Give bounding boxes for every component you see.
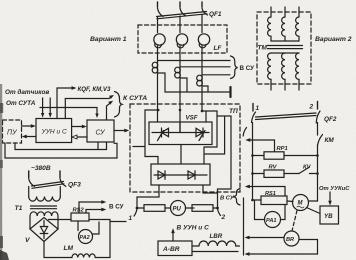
wire От СУТА to СУ (40, 108, 99, 119)
phase C wire upper (201, 15, 203, 33)
tick node 2 (218, 209, 226, 221)
TM primary connector (271, 40, 299, 42)
diode bridge internal wire (154, 174, 207, 176)
current transformer TA1 (152, 62, 158, 73)
arrow В УУН и С (171, 225, 209, 242)
diode bridge box (151, 164, 210, 185)
brace К СУТА (115, 92, 123, 118)
resistor RP1 (264, 152, 284, 159)
block А-BR (158, 241, 192, 256)
wire stub at ТП left (133, 146, 145, 148)
TM primary winding B (282, 7, 285, 41)
node phase B junction (179, 109, 182, 112)
wire bus to RS1 (253, 199, 262, 201)
wire bus right to M (309, 200, 318, 202)
ammeter PA1 (265, 212, 281, 228)
voltmeter PU (171, 201, 186, 216)
supply tick right (59, 171, 61, 178)
wire phase A bypass to diode bridge (145, 110, 158, 164)
thyristor VS2 (196, 128, 205, 141)
TM secondary winding B (282, 53, 285, 90)
wire BR to СУ (245, 236, 285, 240)
transformer T1 primary (29, 187, 61, 202)
svg-text:LF: LF (214, 45, 223, 52)
contact stroke node 1 (252, 112, 256, 123)
svg-text:Вариант 1: Вариант 1 (90, 36, 127, 43)
breaker QF2 (316, 111, 337, 123)
converter box ТП (130, 104, 240, 192)
feedback wire inner (15, 142, 107, 149)
wire RS2 to PA2 (77, 221, 79, 231)
wire QF2 to KM (317, 123, 319, 136)
svg-text:От СУТА: От СУТА (6, 100, 36, 107)
rectifier V (30, 218, 58, 242)
svg-text:КV: КV (303, 165, 312, 171)
CT common wire 2 (180, 78, 187, 92)
tick node 1 (129, 209, 138, 222)
reactor LF coil C (198, 34, 209, 48)
feedback wire stub under СУ (97, 142, 99, 149)
wire СУ to К СУТА (107, 101, 114, 120)
CT common terminal bar (229, 87, 231, 97)
svg-text:ТП: ТП (229, 108, 238, 115)
svg-text:УУН и С: УУН и С (41, 129, 68, 136)
CT lead 2 to СУ (180, 66, 230, 68)
CT common bus (165, 91, 231, 93)
svg-text:QF2: QF2 (324, 116, 337, 123)
contact KV (299, 165, 318, 174)
current transformer TA2 (175, 67, 181, 78)
resistor right (row) (192, 205, 213, 212)
svg-text:YB: YB (324, 213, 333, 220)
node phase A junction (157, 109, 160, 112)
svg-text:2: 2 (221, 214, 226, 221)
wire RS2 to СУ upper (79, 200, 106, 213)
svg-text:BR: BR (286, 237, 294, 243)
TM secondary winding C (296, 53, 299, 90)
svg-text:VSF: VSF (186, 115, 198, 122)
svg-text:PU: PU (173, 207, 182, 213)
phase A wire mid (157, 46, 159, 122)
smoothing choke LM (44, 242, 110, 258)
sensor input arrow 1 (41, 98, 44, 118)
wire PA1 loop right (281, 205, 286, 220)
TM primary winding C (296, 7, 299, 41)
bus right (motor) (317, 145, 319, 201)
CT lead 3 to СУ (202, 74, 230, 76)
resistor left (row) (144, 205, 165, 212)
wire diode bridge output left (137, 185, 159, 208)
svg-text:ТМ: ТМ (258, 45, 268, 52)
wiper RP1 to СУ arrow (245, 138, 274, 151)
brace В СУ (CT) (231, 56, 238, 79)
arrow to YB (328, 192, 332, 206)
wire bottom return to СУ (245, 252, 318, 256)
tachogenerator BR (284, 231, 299, 246)
svg-text:К СУТА: К СУТА (123, 95, 147, 102)
wire phase C bypass right (203, 111, 231, 207)
svg-text:Вариант 2: Вариант 2 (315, 36, 352, 43)
wire RS1 to M (287, 200, 293, 203)
wire LM output riser (110, 220, 126, 258)
svg-text:СУ: СУ (96, 130, 107, 137)
wire УУН и С output to КQF,КМ,V3 (57, 86, 77, 118)
node output 1 (136, 207, 139, 210)
tick node 1 (motor circuit) (253, 104, 260, 113)
bus left (motor) (252, 123, 254, 201)
svg-text:В УУН и С: В УУН и С (177, 225, 210, 232)
reactor LF box (138, 25, 227, 53)
reactor LF coil B (176, 34, 187, 48)
shunt RS2 (71, 208, 89, 222)
diode VD2 (188, 171, 195, 179)
brace В СУ (ТП bottom) (233, 189, 240, 206)
feedback wire outer (5, 143, 117, 158)
CT lead 1 to СУ (158, 60, 231, 62)
svg-text:От УУКиС: От УУКиС (319, 186, 350, 192)
wire M to YB (307, 208, 321, 214)
svg-text:В СУ: В СУ (240, 65, 255, 72)
transformer T1 core (31, 206, 57, 209)
tick node 2 (motor circuit) (309, 102, 318, 111)
current transformer TA3 (197, 75, 203, 86)
wire УУН и С to К СУТА (65, 95, 114, 119)
svg-text:В СУ: В СУ (109, 204, 124, 211)
svg-text:А-BR: А-BR (162, 246, 180, 253)
diode VD1 (158, 171, 165, 179)
brake YB (320, 206, 339, 224)
sensor input arrow 2 (49, 98, 52, 118)
CT common wire 1 (158, 73, 166, 92)
CT common wire 3 (202, 86, 208, 92)
svg-text:1: 1 (129, 215, 133, 222)
wire RS1 feedback to СУ (245, 185, 285, 196)
svg-text:От датчиков: От датчиков (5, 88, 49, 96)
svg-text:LМ: LМ (64, 245, 74, 252)
DC row wire (137, 207, 218, 209)
wire RS2 output right (89, 219, 110, 221)
svg-text:ПУ: ПУ (7, 130, 18, 137)
arrow УУН и С to СУ (72, 125, 87, 129)
TM primary winding A (268, 7, 271, 41)
thyristor bridge VSF box (149, 122, 212, 145)
svg-text:2: 2 (309, 104, 314, 111)
wire В СУ riser (243, 198, 245, 255)
wire А-BR lower (192, 251, 238, 253)
wire BR return loop (299, 240, 318, 255)
svg-text:КQF, КМ,V3: КQF, КМ,V3 (78, 86, 111, 93)
node bus RS1 (251, 199, 254, 202)
TM core (268, 46, 303, 49)
svg-text:QF3: QF3 (68, 182, 81, 189)
shunt RS1 (261, 196, 287, 205)
scan artifact left edge (0, 84, 9, 260)
wire phase C jog (202, 111, 217, 122)
supply tick left (28, 171, 30, 178)
svg-text:КМ: КМ (325, 137, 335, 144)
phase B wire mid (179, 46, 181, 132)
phase B wire upper (179, 16, 181, 33)
svg-text:РА2: РА2 (80, 235, 90, 241)
svg-text:РА1: РА1 (266, 218, 277, 224)
TM secondary winding A (268, 53, 271, 90)
choke LBR (192, 241, 240, 246)
mechanical link M to BR (292, 211, 297, 232)
node KV right (316, 172, 319, 175)
block СУ (87, 120, 114, 142)
link line nodes 1-2 (256, 113, 317, 120)
svg-text:QF1: QF1 (209, 11, 222, 18)
wire rectifier to RS2 (49, 219, 72, 221)
wire PA1 loop left (255, 200, 265, 220)
VSF internal wire (152, 122, 209, 133)
resistor RV (264, 170, 284, 177)
arrow СУ to ТП (114, 129, 129, 133)
arrow СУ to УУН и С (hollow) (72, 135, 87, 139)
wire RS2 to СУ lower (86, 208, 106, 213)
controller ПУ (3, 120, 22, 143)
node RV left (251, 172, 254, 175)
block УУН и С (36, 119, 72, 143)
svg-text:RP1: RP1 (277, 146, 288, 152)
svg-text:1: 1 (256, 105, 260, 112)
phase C wire mid (201, 46, 203, 111)
node RP1 left (251, 154, 254, 157)
TM secondary connector (271, 52, 299, 54)
contactor KM (318, 135, 335, 146)
svg-text:LBR: LBR (210, 233, 223, 240)
arrow ПУ to УУН и С (22, 124, 36, 128)
node RP1 right (316, 154, 319, 157)
wire VSF to diode bridge center (180, 145, 182, 165)
phase A wire upper (157, 17, 159, 33)
motor M (293, 195, 309, 211)
transformer TM box (257, 12, 311, 84)
thyristor VS1 (158, 128, 169, 141)
breaker QF3 (29, 179, 81, 189)
node output 2 (216, 207, 219, 210)
svg-text:Т1: Т1 (15, 205, 23, 212)
svg-text:В СУ: В СУ (220, 196, 235, 202)
reactor LF coil A (154, 34, 165, 48)
three-phase supply ticks (158, 2, 203, 7)
svg-text:~380В: ~380В (31, 165, 51, 172)
wire row RP1 (253, 155, 318, 157)
curve stroke artifact (243, 128, 246, 137)
wire PA2 loop (93, 222, 100, 234)
breaker QF1 (157, 8, 222, 19)
transformer T1 secondary (30, 212, 58, 229)
arrow УУН и С to ПУ (22, 135, 36, 139)
wire row RV (253, 173, 300, 175)
node phase C junction (201, 110, 204, 113)
ammeter PA2 (79, 230, 93, 244)
